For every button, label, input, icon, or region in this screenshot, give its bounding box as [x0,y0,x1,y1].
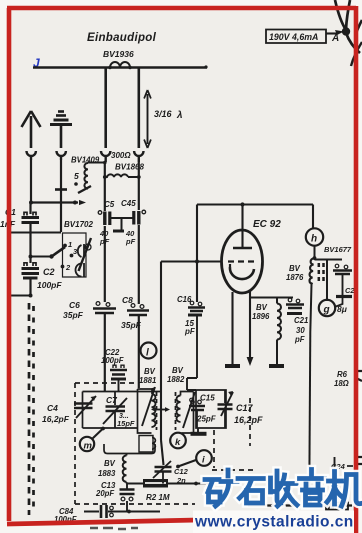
svg-text:k: k [175,437,181,448]
wire rail left drop [195,205,199,303]
resistor R2 [143,479,170,502]
wire antenna junction [29,200,86,205]
wire left feeder [104,68,107,149]
svg-text:2n: 2n [176,476,186,485]
svg-text:C4: C4 [47,403,58,413]
wire left feeder to osc box [104,319,106,391]
label BV1868 [115,163,144,172]
wire left stub y232 [10,231,61,233]
wire anode supply rail [197,202,313,206]
wire right feeder to C8 [138,225,140,304]
caption marks below border [90,528,138,529]
wire A2 down [55,160,67,232]
svg-text:C12: C12 [174,467,189,476]
wire rail to node h [312,205,314,229]
svg-text:R6: R6 [337,370,348,379]
dashed box right lower [213,430,215,468]
capacitor C84 [54,505,160,524]
svg-text:BV1868: BV1868 [115,163,144,172]
svg-text:pF: pF [184,327,196,336]
svg-text:C17: C17 [236,403,254,413]
svg-text:2: 2 [65,263,71,272]
label BV1677 [324,245,352,254]
wire grid to mixer coil [160,262,162,384]
svg-text:1881: 1881 [139,376,156,385]
svg-text:A: A [331,33,339,44]
coil box lower [139,436,155,453]
svg-text:16,2pF: 16,2pF [42,414,70,424]
svg-text:R2 1M: R2 1M [146,493,170,502]
ground cathode [225,364,240,368]
capacitor C1 [22,212,40,222]
wire bottom right rail [248,490,352,508]
wire grid line [161,260,222,262]
switch BV1702 [29,220,94,277]
capacitor C15 box [189,390,226,428]
wire cathode down [231,292,233,364]
svg-text:BV1677: BV1677 [324,245,352,254]
wire left feeder to C6 [104,226,106,302]
svg-text:15pF: 15pF [117,419,135,428]
wire osc bottom rail [127,482,211,486]
svg-text:C6: C6 [69,300,80,310]
svg-text:35pF: 35pF [63,310,84,320]
capacitor 8u [335,297,353,315]
label 300 ohm [111,151,131,160]
svg-text:16,2pF: 16,2pF [234,415,263,425]
label Einbaudipol [87,32,157,44]
connector cup A1 [27,151,36,160]
capacitor C23 [333,264,355,295]
coil BV1409 [71,156,104,194]
wire C1 down [29,224,31,257]
label BV1936 [103,49,134,59]
svg-text:5: 5 [74,171,79,181]
svg-text:1876: 1876 [286,273,304,282]
watermark char shou [271,471,298,506]
wire C5-C45 midpoint stub [111,218,133,231]
wire h to choke [313,246,342,260]
wire heater drop with arrow [247,291,254,366]
svg-text:1883: 1883 [98,469,116,478]
wire ground stub y295 [9,294,33,298]
dashed osc box top [75,382,135,384]
wire tube bottom to BV1896 [250,297,293,299]
label BV 1881 [139,367,156,385]
svg-text:BV1936: BV1936 [103,49,134,59]
connector cup A2 [57,151,66,160]
connector cup right feeder [134,151,143,162]
coil coupling core dashes [157,392,176,430]
wire g drop [326,260,328,302]
stray scan marks right edge [356,371,362,464]
svg-text:BV: BV [289,264,301,273]
node l [141,343,157,359]
dimension arrow 3/16 lambda [144,90,182,148]
svg-text:Einbaudipol: Einbaudipol [87,32,157,44]
svg-text:pF: pF [125,237,136,246]
label R6 18ohm [334,370,349,388]
svg-text:1882: 1882 [167,375,185,384]
capacitor C22 [101,348,127,391]
shield chassis dashed line [29,303,34,515]
svg-text:BV: BV [256,303,268,312]
watermark url text [194,514,354,531]
svg-text:300Ω: 300Ω [111,151,131,160]
svg-text:1: 1 [68,240,72,249]
svg-text:www.crystalradio.cn: www.crystalradio.cn [194,514,354,531]
node h [306,228,323,245]
node g [319,300,335,316]
wire mixer mid line [151,383,170,465]
svg-text:C21: C21 [294,316,308,325]
svg-text:BV: BV [104,459,116,468]
tube EC92 [222,205,282,294]
svg-text:pF: pF [294,335,305,344]
label 40pF right [125,229,136,246]
capacitor C45 [134,210,146,224]
coil BV1868 300ohm balun [105,174,139,177]
meter loop arcs at corner [335,0,362,66]
dashed jog [212,469,253,471]
svg-text:8μ: 8μ [337,304,348,314]
dashed box right upper [249,398,251,446]
capacitor C2 [22,263,63,290]
label 40pF left [99,229,110,246]
label C24 [331,462,353,471]
svg-text:C15: C15 [200,394,215,403]
capacitor C7 [103,392,135,429]
capacitor C6 [63,300,116,320]
wire dipole feed line [33,65,208,68]
wire right feeder to mixer [138,319,140,388]
svg-text:100pF: 100pF [37,280,62,290]
connector cup left feeder [101,151,110,162]
capacitor C13 [95,481,135,511]
capacitor C8 [121,295,149,330]
svg-text:λ: λ [176,110,183,121]
svg-text:190V 4,6mA: 190V 4,6mA [269,32,318,42]
capacitor C5 [98,211,110,225]
svg-text:i: i [202,455,205,466]
svg-text:C5: C5 [104,200,115,209]
coil BV1882 [177,392,196,434]
svg-text:18Ω: 18Ω [334,379,349,388]
node k [170,433,186,449]
label C5 [104,200,115,209]
svg-text:l: l [146,348,149,359]
wire antenna node to C1 [29,203,31,215]
svg-text:C7: C7 [106,395,118,405]
coil BV1936 [108,62,131,69]
watermark char yin [300,470,325,506]
coil BV1876 [286,258,324,332]
wire feeder left segment [103,161,107,211]
watermark white block [193,511,354,533]
svg-text:BV: BV [172,366,184,375]
capacitor C17 [218,390,264,428]
tuned circuit box C4 C7 [83,392,163,429]
dashed osc box bottom [75,503,195,505]
svg-text:BV: BV [144,367,156,376]
watermark char kuang [205,470,237,506]
svg-text:20pF: 20pF [95,489,114,498]
label C1 [0,207,16,229]
watermark char shi [238,479,264,504]
annotation 190V 4,6mA box [266,30,344,45]
ground C15 [191,428,207,434]
watermark char ji [327,472,361,507]
svg-text:30: 30 [296,326,305,335]
svg-text:h: h [311,234,317,245]
svg-text:BV1702: BV1702 [64,220,93,229]
label C45 [121,199,136,208]
wire A1 down [30,160,32,203]
svg-text:100pF: 100pF [101,356,124,365]
coil BV1881 [138,387,156,433]
antenna A1 [22,111,41,148]
coil BV1883 [98,444,155,484]
capacitor C21 [286,298,308,344]
svg-text:m: m [84,441,93,452]
antenna A2 [50,112,72,149]
capacitor C4 [42,396,96,424]
node J [33,56,40,70]
dashed osc box left [74,383,76,504]
svg-text:EC 92: EC 92 [253,219,281,230]
svg-text:g: g [323,305,330,316]
svg-text:1896: 1896 [252,312,270,321]
wire C2 down [29,257,31,296]
wire right feeder [138,68,141,149]
node m [80,427,105,452]
wire C24 drop [334,457,336,470]
label BV 1882 [167,366,185,384]
ground BV1896 [269,364,284,368]
svg-text:25pF: 25pF [196,415,217,424]
wire grid rail down to C15 box [187,315,197,390]
node i [176,450,212,468]
svg-text:3/16: 3/16 [154,109,173,119]
svg-text:C2: C2 [43,267,55,277]
capacitor C16 grid trimmer [177,295,205,336]
wire feeder right segment [137,162,141,210]
coil BV1896 [252,298,281,365]
capacitor C12 [153,461,189,485]
wire right column R6 [309,332,310,490]
svg-text:C45: C45 [121,199,136,208]
resistor bottom right [326,503,348,510]
